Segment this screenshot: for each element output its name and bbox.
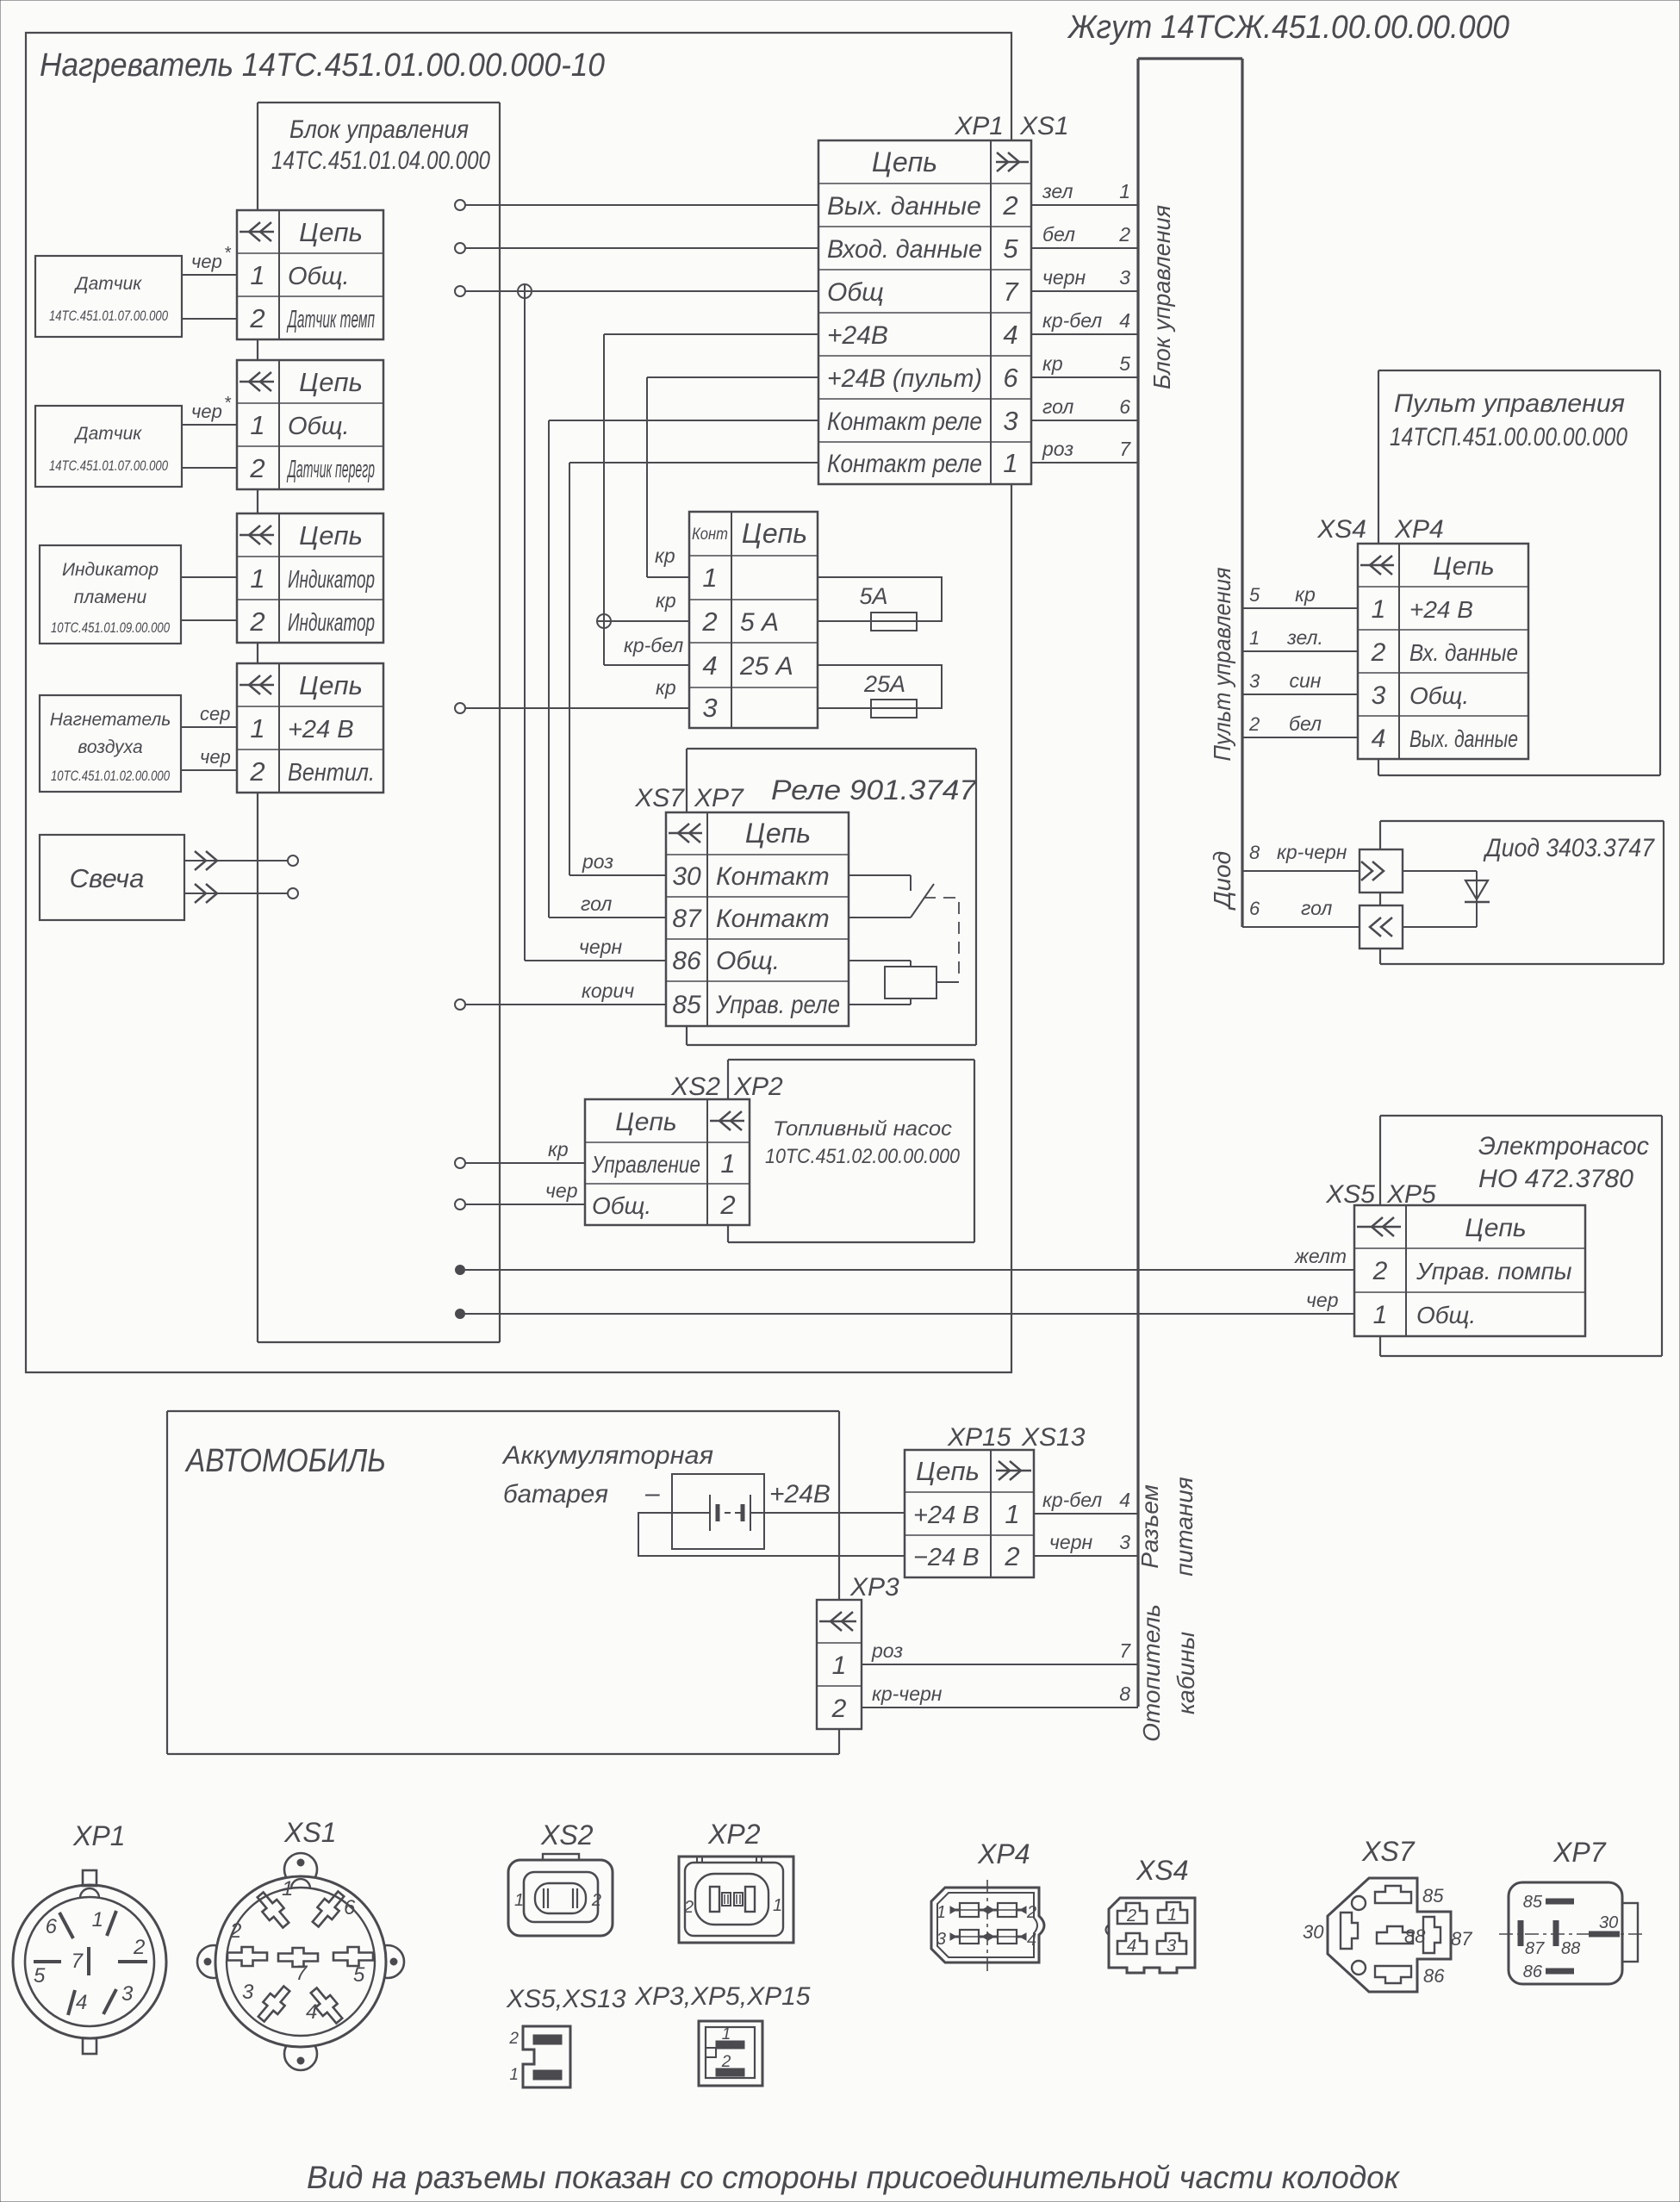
svg-text:2: 2 — [831, 1695, 847, 1723]
power connector table XP15/XS13 — [905, 1450, 1034, 1577]
svg-text:2: 2 — [1118, 223, 1130, 246]
svg-text:Индикатор: Индикатор — [62, 560, 159, 580]
svg-text:1: 1 — [514, 1891, 524, 1910]
svg-text:Индикатор: Индикатор — [288, 566, 375, 594]
connector face XS4 body — [1106, 1898, 1196, 1973]
cab heater connector XP3 — [817, 1600, 862, 1729]
wire 25А output to control unit — [465, 676, 689, 708]
svg-text:Управ. помпы: Управ. помпы — [1416, 1258, 1572, 1284]
harness wire роз 7 — [862, 1639, 1138, 1664]
svg-text:XP1: XP1 — [72, 1820, 125, 1851]
svg-text:1: 1 — [1167, 1906, 1177, 1925]
svg-text:Вид на разъемы показан со стор: Вид на разъемы показан со стороны присое… — [307, 2160, 1401, 2195]
svg-text:2: 2 — [1004, 1541, 1019, 1571]
svg-text:85: 85 — [672, 991, 701, 1019]
harness group label Отопитель кабины — [1138, 1604, 1199, 1742]
svg-text:5: 5 — [1003, 233, 1018, 264]
svg-text:XS7: XS7 — [634, 784, 685, 812]
svg-text:Датчик перегр: Датчик перегр — [287, 456, 375, 483]
svg-text:XS5,XS13: XS5,XS13 — [506, 1985, 626, 2013]
svg-text:14ТС.451.01.07.00.000: 14ТС.451.01.07.00.000 — [49, 308, 169, 324]
svg-text:2: 2 — [701, 606, 717, 637]
battery plus label — [769, 1480, 831, 1508]
harness wire бел 2 — [1031, 223, 1138, 248]
sensor box Датчик (temperature) — [35, 256, 182, 337]
electric pump box Электронасос — [1380, 1116, 1662, 1356]
wire +24В vertical drop — [603, 334, 605, 614]
svg-text:2: 2 — [1248, 713, 1260, 735]
connector face XP7 body — [1499, 1882, 1642, 1984]
svg-text:кр: кр — [1295, 583, 1316, 606]
relay contact arm — [911, 884, 934, 917]
svg-text:3: 3 — [1372, 681, 1386, 710]
connector face XS1 label — [283, 1817, 336, 1848]
svg-text:25А: 25А — [863, 671, 905, 697]
svg-text:1: 1 — [722, 2025, 731, 2043]
diode VD1 loop — [1403, 871, 1477, 927]
svg-text:Датчик: Датчик — [74, 274, 143, 294]
wire Общ to XP1 pin7 — [465, 290, 818, 292]
svg-text:Цепь: Цепь — [1433, 552, 1494, 581]
diode VD1 symbol — [1465, 880, 1490, 902]
harness wire зел 1 — [1031, 180, 1138, 205]
relay contact 30 internal wire — [849, 875, 911, 891]
svg-text:чер: чер — [200, 746, 231, 768]
svg-text:4: 4 — [306, 2000, 317, 2024]
terminal node чер pump — [456, 1309, 464, 1318]
svg-text:Цепь: Цепь — [615, 1108, 676, 1136]
svg-text:XP1: XP1 — [954, 112, 1004, 140]
svg-text:87: 87 — [1525, 1939, 1545, 1958]
svg-text:Общ.: Общ. — [288, 413, 350, 440]
connector face XS1 slots — [227, 1877, 373, 2027]
svg-text:Электронасос: Электронасос — [1478, 1132, 1649, 1160]
connector table XS - Индикатор — [237, 513, 383, 643]
relay connector labels XS7 XP7 — [634, 784, 744, 812]
terminal node чер fuel — [455, 1199, 465, 1210]
svg-text:Цепь: Цепь — [872, 146, 937, 177]
svg-text:кр-бел: кр-бел — [624, 634, 683, 656]
svg-text:XS2: XS2 — [540, 1819, 594, 1851]
wire indicator pin1 — [181, 576, 237, 578]
fuse F1 5A loop — [818, 577, 942, 621]
harness wire кр-бел 4 — [1034, 1489, 1138, 1514]
svg-text:1: 1 — [1373, 1301, 1388, 1329]
svg-text:XS2: XS2 — [670, 1073, 720, 1101]
svg-text:зел.: зел. — [1286, 626, 1323, 649]
connector face XS4 label — [1136, 1855, 1188, 1886]
svg-text:черн: черн — [1042, 266, 1086, 289]
harness group label Разъем питания — [1136, 1477, 1198, 1577]
svg-text:XP7: XP7 — [1552, 1837, 1607, 1868]
svg-text:–: – — [644, 1479, 660, 1508]
connector face XS7 body — [1328, 1878, 1451, 1992]
power connector labels XP15 XS13 — [947, 1423, 1086, 1452]
svg-text:XS13: XS13 — [1021, 1423, 1086, 1452]
svg-text:+24В: +24В — [827, 321, 888, 350]
svg-text:2: 2 — [1372, 1257, 1388, 1285]
connector face XP4 pins — [936, 1903, 1036, 1950]
svg-text:*: * — [224, 244, 232, 263]
heater assembly boundary box Нагреватель — [26, 33, 1011, 1372]
svg-text:3: 3 — [936, 1930, 946, 1949]
connector face XS2 label — [540, 1819, 594, 1851]
connector table XS - Датчик темп — [237, 210, 383, 339]
connector face XP2 body — [679, 1857, 793, 1943]
svg-text:чер: чер — [191, 251, 222, 272]
svg-text:6: 6 — [46, 1915, 58, 1938]
terminal node glow upper — [288, 855, 298, 866]
control unit name label — [271, 115, 490, 175]
vehicle name label — [184, 1443, 386, 1479]
svg-text:7: 7 — [296, 1962, 308, 1985]
glow plug box Свеча — [40, 835, 184, 920]
junction +24В fuse feed — [597, 614, 611, 628]
connector face XP1 pins — [34, 1908, 147, 2015]
fuel pump labels XS2 XP2 — [670, 1073, 783, 1101]
wire battery minus loop — [638, 1513, 905, 1556]
svg-text:5: 5 — [1119, 352, 1130, 375]
wire glow plug lower with chevrons — [184, 884, 288, 903]
svg-text:1: 1 — [250, 563, 264, 594]
svg-text:1: 1 — [1249, 627, 1260, 649]
svg-text:1: 1 — [702, 563, 717, 593]
svg-text:Топливный насос: Топливный насос — [773, 1117, 952, 1141]
svg-text:Диод: Диод — [1209, 851, 1235, 911]
svg-text:воздуха: воздуха — [78, 737, 142, 757]
svg-text:Общ.: Общ. — [592, 1192, 651, 1219]
svg-text:черн: черн — [1049, 1531, 1092, 1553]
svg-text:кр-бел: кр-бел — [1042, 1489, 1102, 1511]
svg-text:4: 4 — [1003, 320, 1017, 350]
svg-text:XP3: XP3 — [849, 1573, 899, 1602]
svg-text:Вх. данные: Вх. данные — [1409, 639, 1518, 666]
svg-text:Реле 901.3747: Реле 901.3747 — [771, 774, 977, 806]
svg-text:Нагнетатель: Нагнетатель — [50, 710, 171, 730]
svg-text:Вых. данные: Вых. данные — [827, 192, 981, 221]
svg-text:Цепь: Цепь — [1465, 1214, 1526, 1242]
control panel name label — [1390, 389, 1627, 451]
svg-text:2: 2 — [229, 1919, 241, 1943]
terminal node корич — [455, 999, 465, 1010]
svg-text:кр: кр — [1042, 352, 1063, 375]
svg-text:2: 2 — [508, 2030, 519, 2048]
svg-text:XP2: XP2 — [707, 1819, 761, 1850]
svg-text:XS7: XS7 — [1361, 1836, 1416, 1867]
wire battery plus to XP15 — [764, 1512, 905, 1514]
svg-text:3: 3 — [242, 1981, 254, 2004]
svg-text:4: 4 — [1119, 309, 1130, 332]
harness wire роз 7 — [1031, 438, 1138, 463]
wire glow plug upper with chevrons — [184, 851, 288, 870]
relay contact 87 internal wire — [849, 917, 911, 918]
svg-text:Конт: Конт — [692, 526, 728, 544]
diode box Диод 3403.3747 — [1380, 821, 1664, 964]
svg-text:10ТС.451.01.09.00.000: 10ТС.451.01.09.00.000 — [51, 620, 171, 636]
svg-text:3: 3 — [1119, 1531, 1130, 1553]
svg-text:4: 4 — [702, 650, 717, 681]
wire роз drop to relay 30 — [569, 463, 666, 875]
connector face XP3,XP5,XP15 body — [699, 2021, 762, 2086]
svg-text:чер: чер — [191, 401, 222, 422]
svg-text:4: 4 — [1119, 1489, 1130, 1511]
svg-text:5 А: 5 А — [740, 608, 779, 637]
svg-text:чер: чер — [545, 1179, 578, 1202]
harness wire гол 6 — [1031, 395, 1138, 420]
wire +24В (пульт) to XP1 pin6 — [647, 376, 818, 378]
svg-text:АВТОМОБИЛЬ: АВТОМОБИЛЬ — [184, 1443, 386, 1479]
svg-text:батарея: батарея — [503, 1480, 608, 1508]
svg-text:3: 3 — [121, 1982, 134, 2006]
svg-text:+24 В: +24 В — [288, 716, 354, 743]
terminal node 25А output — [455, 703, 465, 713]
svg-text:3: 3 — [1249, 670, 1260, 692]
battery minus label — [644, 1479, 660, 1508]
svg-text:2: 2 — [249, 606, 264, 637]
connector face XS5,XS13 label — [506, 1985, 626, 2013]
connector table XS - Датчик перегр — [237, 360, 383, 489]
connector face XP7 label — [1552, 1837, 1607, 1868]
svg-text:1: 1 — [250, 713, 264, 743]
relay actuation dashed link — [924, 898, 959, 982]
wire Контакт реле 3 to XP1 — [549, 420, 818, 421]
terminal node желт — [456, 1266, 464, 1274]
svg-text:роз: роз — [582, 850, 613, 873]
svg-text:88: 88 — [1561, 1939, 1580, 1958]
svg-text:10ТС.451.01.02.00.000: 10ТС.451.01.02.00.000 — [51, 768, 171, 784]
connector table XS - Вентил — [237, 663, 383, 793]
svg-text:Блок управления: Блок управления — [289, 115, 469, 144]
svg-text:кабины: кабины — [1173, 1632, 1199, 1715]
wire 5А fuse output drop — [647, 377, 689, 577]
svg-text:4: 4 — [1027, 1931, 1036, 1950]
svg-text:кр: кр — [548, 1138, 569, 1160]
connector face XP3,XP5,XP15 label — [634, 1982, 811, 2011]
svg-text:8: 8 — [1119, 1683, 1130, 1705]
svg-text:Управление: Управление — [591, 1151, 700, 1178]
svg-text:кр-черн: кр-черн — [1277, 841, 1347, 863]
wire кр-черн 8 to diode — [1242, 841, 1360, 871]
fuel pump name label — [765, 1117, 961, 1168]
svg-text:кр-черн: кр-черн — [872, 1683, 943, 1705]
svg-text:XS1: XS1 — [283, 1817, 336, 1848]
svg-text:Датчик: Датчик — [74, 424, 143, 444]
svg-text:син: син — [1290, 669, 1322, 692]
svg-text:сер: сер — [200, 703, 230, 725]
svg-text:Нагреватель 14ТС.451.01.00.00.: Нагреватель 14ТС.451.01.00.00.000-10 — [40, 47, 605, 84]
svg-text:5: 5 — [34, 1964, 46, 1987]
svg-text:2: 2 — [249, 756, 264, 787]
svg-text:1: 1 — [250, 410, 264, 440]
svg-text:1: 1 — [509, 2066, 519, 2084]
harness wire кр-бел 4 — [1031, 309, 1138, 334]
diode connector square 8 — [1360, 849, 1403, 893]
svg-text:87: 87 — [1451, 1928, 1472, 1950]
wire корич to relay 85 — [465, 980, 666, 1005]
svg-text:Цепь: Цепь — [299, 367, 363, 397]
svg-text:10ТС.451.02.00.00.000: 10ТС.451.02.00.00.000 — [765, 1145, 961, 1168]
svg-text:2: 2 — [1026, 1903, 1036, 1922]
svg-text:7: 7 — [1119, 438, 1131, 460]
svg-text:гол: гол — [1301, 897, 1332, 919]
svg-text:2: 2 — [249, 453, 264, 483]
wire чер* sensor2 pin1 — [182, 394, 237, 425]
wire sensor1 pin2 — [182, 318, 237, 320]
svg-text:1: 1 — [92, 1908, 103, 1931]
fuel pump connector table XS2/XP2 — [585, 1099, 750, 1225]
terminal node Вход.данные — [455, 243, 465, 253]
svg-text:Цепь: Цепь — [916, 1456, 980, 1486]
svg-text:Аккумуляторная: Аккумуляторная — [501, 1441, 713, 1470]
battery name label — [501, 1441, 713, 1508]
wire чер to fuel pump 2 — [465, 1179, 585, 1204]
wire гол 6 to diode — [1242, 897, 1360, 927]
svg-text:Индикатор: Индикатор — [288, 609, 375, 637]
harness wire кр-черн 8 — [862, 1683, 1138, 1707]
svg-text:XP15: XP15 — [947, 1423, 1011, 1452]
svg-text:Блок управления: Блок управления — [1148, 205, 1175, 389]
svg-text:2: 2 — [249, 303, 264, 333]
blower box Нагнетатель воздуха — [40, 695, 181, 792]
svg-text:+24В (пульт): +24В (пульт) — [827, 364, 982, 393]
svg-text:Контакт реле: Контакт реле — [827, 407, 982, 436]
svg-text:Вход. данные: Вход. данные — [827, 235, 982, 264]
svg-text:желт: желт — [1294, 1245, 1347, 1267]
wire Контакт реле 1 to XP1 — [569, 462, 818, 463]
svg-text:кр: кр — [656, 589, 676, 612]
svg-text:Цепь: Цепь — [742, 518, 807, 549]
svg-text:3: 3 — [1119, 266, 1130, 289]
svg-text:4: 4 — [76, 1991, 87, 2014]
svg-text:XP3,XP5,XP15: XP3,XP5,XP15 — [634, 1982, 811, 2011]
svg-text:Свеча: Свеча — [70, 863, 145, 893]
terminal node Вых.данные — [455, 200, 465, 210]
harness group label Диод — [1209, 851, 1235, 911]
svg-text:бел: бел — [1289, 712, 1322, 735]
svg-text:5А: 5А — [859, 583, 887, 609]
harness group label Пульт управления — [1209, 567, 1235, 761]
fuse block table Конт/Цепь — [689, 512, 818, 728]
svg-text:XS4: XS4 — [1316, 515, 1366, 544]
connector face XS7 slots — [1303, 1885, 1472, 1987]
svg-text:4: 4 — [1127, 1937, 1136, 1956]
svg-text:пламени: пламени — [74, 588, 147, 607]
bottom caption — [307, 2160, 1401, 2195]
battery box — [672, 1474, 764, 1549]
control panel box Пульт управления — [1378, 370, 1660, 775]
harness wire черн 3 — [1034, 1531, 1138, 1556]
connector face XP7 pins — [1521, 1893, 1620, 1981]
svg-text:88: 88 — [1404, 1925, 1426, 1947]
svg-text:корич: корич — [582, 980, 634, 1002]
control panel connector table XS4/XP4 — [1358, 544, 1528, 759]
connector face XP1 body — [13, 1870, 166, 2054]
svg-text:XP4: XP4 — [977, 1838, 1030, 1869]
svg-text:роз: роз — [871, 1639, 903, 1662]
svg-text:Разъем: Разъем — [1136, 1484, 1163, 1569]
sensor box Датчик (overheat) — [35, 406, 182, 487]
connector face XS1 body — [197, 1853, 404, 2070]
svg-text:Пульт управления: Пульт управления — [1209, 567, 1235, 761]
svg-text:XP7: XP7 — [694, 784, 744, 812]
wire сер blower pin1 — [181, 703, 237, 727]
terminal node glow lower — [288, 888, 298, 899]
svg-text:86: 86 — [672, 947, 701, 975]
svg-text:Контакт: Контакт — [716, 862, 830, 891]
battery GB symbol — [672, 1495, 764, 1531]
diode connector square 6 — [1360, 905, 1403, 949]
main connector XP1-XS1 labels — [954, 112, 1068, 140]
svg-text:Отопитель: Отопитель — [1138, 1604, 1165, 1742]
svg-text:30: 30 — [1303, 1921, 1324, 1943]
harness wire кр 5 — [1031, 352, 1138, 377]
svg-text:4: 4 — [1372, 725, 1386, 753]
connector face XP4 label — [977, 1838, 1030, 1869]
wire желт to pump 2 — [464, 1245, 1354, 1270]
svg-text:1: 1 — [282, 1877, 293, 1900]
svg-text:2: 2 — [1002, 190, 1017, 221]
svg-text:30: 30 — [672, 862, 701, 891]
svg-text:роз: роз — [1042, 438, 1073, 460]
connector face XS7 label — [1361, 1836, 1416, 1867]
svg-text:гол: гол — [1042, 395, 1073, 418]
svg-text:Общ.: Общ. — [716, 947, 780, 975]
harness wire черн 3 — [1031, 266, 1138, 291]
harness title label — [1067, 9, 1509, 46]
svg-text:НО 472.3780: НО 472.3780 — [1478, 1165, 1633, 1193]
fuse F2 25A body — [863, 671, 917, 718]
wire чер* sensor1 pin1 — [182, 244, 237, 275]
relay box Реле 901.3747 — [687, 749, 976, 1045]
svg-text:Контакт реле: Контакт реле — [827, 450, 982, 478]
wire indicator pin2 — [181, 619, 237, 621]
svg-text:7: 7 — [1003, 277, 1019, 307]
svg-text:XS1: XS1 — [1019, 112, 1069, 140]
relay coil — [885, 967, 936, 998]
svg-text:6: 6 — [1003, 363, 1018, 393]
svg-text:Диод 3403.3747: Диод 3403.3747 — [1483, 834, 1655, 862]
svg-text:1: 1 — [773, 1896, 782, 1915]
electric pump connector labels XS5 XP5 — [1325, 1180, 1436, 1209]
connector face XP2 label — [707, 1819, 761, 1850]
svg-text:8: 8 — [1249, 842, 1260, 863]
svg-text:Датчик темп: Датчик темп — [286, 306, 375, 333]
svg-text:1: 1 — [1119, 180, 1130, 202]
svg-text:7: 7 — [1119, 1639, 1131, 1662]
junction Общ branch — [518, 284, 532, 298]
svg-text:Общ.: Общ. — [1409, 682, 1469, 709]
svg-text:XP4: XP4 — [1394, 515, 1444, 544]
svg-text:+24 В: +24 В — [1409, 596, 1473, 623]
svg-text:2: 2 — [721, 2053, 731, 2071]
svg-text:87: 87 — [672, 905, 702, 933]
svg-text:зел: зел — [1042, 180, 1073, 202]
fuse F2 25A loop — [818, 665, 942, 708]
svg-text:3: 3 — [702, 693, 717, 723]
diode name label — [1483, 834, 1655, 862]
svg-text:1: 1 — [1372, 595, 1386, 624]
svg-text:5: 5 — [353, 1963, 365, 1987]
fuel pump box Топливный насос — [728, 1060, 974, 1242]
svg-text:XP2: XP2 — [733, 1073, 783, 1101]
harness group label Блок управления — [1148, 205, 1175, 389]
svg-text:Общ.: Общ. — [288, 263, 350, 290]
svg-text:Цепь: Цепь — [745, 818, 811, 849]
svg-text:1: 1 — [1005, 1499, 1019, 1529]
main connector table XP1/XS1 — [818, 140, 1031, 484]
svg-text:Контакт: Контакт — [716, 905, 830, 933]
wire Вход. данные to XP1 pin5 — [465, 247, 818, 249]
